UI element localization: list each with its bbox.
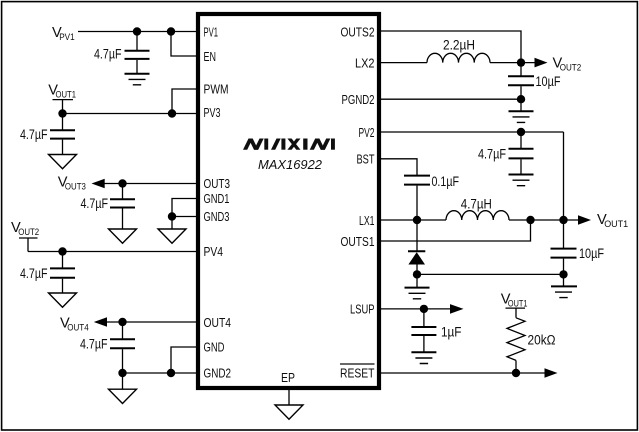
capacitor C1 4.7uF plates: [125, 51, 150, 59]
junction dot VPV1 at EN branch: [167, 27, 175, 35]
ground triangle T6 EP: [275, 405, 303, 419]
ground G1 earth: [125, 73, 150, 75]
svg-text:4.7µH: 4.7µH: [461, 197, 492, 212]
wire LX1 to inductor: [381, 219, 446, 221]
svg-text:EP: EP: [281, 370, 295, 385]
diode D1 cathode bar: [408, 250, 425, 252]
svg-text:PGND2: PGND2: [342, 92, 375, 107]
arrow VOUT4 left: [94, 317, 107, 327]
resistor R1 lead bottom: [515, 360, 517, 373]
svg-text:PWM: PWM: [204, 81, 229, 96]
wire EN branch: [171, 32, 196, 57]
svg-text:4.7µF: 4.7µF: [20, 127, 48, 142]
wire BST: [381, 159, 417, 176]
ground triangle T2: [109, 229, 137, 243]
capacitor 10uF output1 plates: [551, 249, 577, 258]
wire to ground below C5: [122, 373, 124, 389]
svg-text:OUTS1: OUTS1: [341, 234, 375, 249]
wire GND1 GND3 tie: [172, 199, 196, 217]
capacitor 1uF lead bottom: [423, 336, 425, 352]
arrow VOUT1 right: [578, 215, 591, 225]
junction dot 10uF bottom: [559, 270, 567, 278]
svg-text:OUT1: OUT1: [604, 219, 628, 230]
junction dot PV2 at cap: [517, 128, 525, 136]
svg-text:RESET: RESET: [340, 366, 375, 381]
svg-text:4.7µF: 4.7µF: [20, 266, 48, 281]
svg-text:PV1: PV1: [59, 32, 74, 43]
arrow LSUP right: [450, 304, 464, 314]
capacitor C3 lead top: [122, 184, 124, 200]
wire LX2 to inductor: [381, 62, 427, 64]
svg-text:0.1µF: 0.1µF: [432, 174, 460, 189]
junction dot diode anode: [413, 270, 421, 278]
junction dot PGND2 node: [517, 95, 525, 103]
svg-text:OUT4: OUT4: [67, 322, 89, 333]
wire RESET: [381, 372, 545, 374]
svg-text:OUT1: OUT1: [508, 298, 528, 309]
wire 0.1uF to LX1: [416, 186, 418, 220]
svg-text:1µF: 1µF: [441, 325, 462, 340]
junction dot PV3 at PWM branch: [168, 109, 176, 117]
wire PWM branch: [172, 89, 196, 114]
diode D1 lead top: [416, 220, 418, 251]
wire PV2: [381, 131, 564, 133]
junction dot PV4 at C4: [58, 247, 66, 255]
ground triangle T4: [49, 293, 77, 307]
svg-text:4.7µF: 4.7µF: [81, 196, 109, 211]
ground G6 earth: [411, 351, 436, 353]
diode D1 triangle: [408, 252, 425, 264]
ground G4 earth: [416, 274, 418, 287]
capacitor C3 4.7uF plates: [110, 199, 135, 207]
wire OUTS2: [381, 31, 521, 63]
svg-text:OUT2: OUT2: [18, 227, 39, 238]
wire inductor L2 to VOUT2 arrow: [490, 62, 535, 64]
capacitor C2 4.7uF plates: [50, 130, 75, 138]
junction dot GND3: [168, 212, 176, 220]
capacitor C5 lead bottom: [122, 349, 124, 373]
capacitor 10uF output2 lead top: [520, 63, 522, 76]
junction dot VPV1 at C1: [133, 27, 141, 35]
capacitor 4.7uF PV2 plates: [509, 149, 534, 159]
inductor L2 2.2uH: [427, 53, 490, 62]
capacitor C1 lead bottom: [136, 60, 138, 74]
svg-text:OUT3: OUT3: [65, 181, 86, 192]
capacitor 0.1uF plates: [404, 176, 430, 185]
svg-text:20kΩ: 20kΩ: [528, 332, 556, 347]
capacitor 10uF output1 lead top: [563, 220, 565, 248]
wire GND2: [123, 372, 197, 374]
wire EP lead: [288, 390, 290, 405]
svg-text:LX1: LX1: [359, 213, 375, 228]
wire LSUP: [381, 308, 450, 310]
ground triangle T5: [109, 389, 137, 403]
svg-text:LX2: LX2: [355, 55, 375, 70]
junction dot OUT3 at C3: [118, 179, 126, 187]
capacitor 10uF output2 plates: [508, 76, 534, 85]
svg-text:4.7µF: 4.7µF: [94, 46, 122, 61]
svg-text:4.7µF: 4.7µF: [478, 146, 506, 161]
junction dot LX1 at PV2 vertical: [559, 216, 567, 224]
svg-text:OUT1: OUT1: [56, 89, 77, 100]
svg-text:PV4: PV4: [204, 244, 224, 259]
junction dot LX2 output node: [517, 58, 525, 66]
ground triangle T1: [49, 155, 77, 169]
svg-text:GND3: GND3: [204, 209, 230, 224]
capacitor C4 4.7uF plates: [50, 268, 75, 277]
resistor R1 20k zigzag: [507, 318, 525, 361]
junction dot VOUT1 at C2: [58, 109, 66, 117]
wire VOUT2 to PV4: [28, 251, 196, 253]
node VOUT1 label bar and stub above resistor: [506, 308, 526, 318]
svg-text:OUT4: OUT4: [204, 315, 232, 330]
svg-text:GND2: GND2: [204, 366, 232, 381]
capacitor C5 4.7uF plates: [110, 339, 135, 348]
junction dot RESET at R1: [512, 369, 520, 377]
IC U1 MAX16922 box: [198, 14, 379, 388]
arrow VOUT3 left: [92, 179, 105, 189]
node VOUT1 label bar and stub: [53, 100, 74, 114]
capacitor C3 lead bottom: [122, 209, 124, 230]
arrow VOUT2 right: [535, 58, 548, 68]
ground triangle T3: [158, 229, 186, 243]
svg-text:10µF: 10µF: [536, 74, 561, 89]
ground G3 earth: [509, 174, 534, 176]
node VOUT2 label bar and stub: [19, 238, 38, 252]
svg-text:GND1: GND1: [204, 191, 230, 206]
wire OUTS1: [381, 220, 531, 241]
capacitor 4.7uF PV2 lead bottom: [520, 159, 522, 174]
svg-text:LSUP: LSUP: [350, 302, 375, 317]
svg-text:OUT3: OUT3: [204, 176, 231, 191]
capacitor 10uF output2 lead bottom: [520, 86, 522, 99]
diode D1 lead bottom: [416, 265, 418, 275]
capacitor C5 lead top: [122, 322, 124, 339]
wire PGND2: [381, 98, 521, 100]
ground G2 earth: [520, 99, 522, 111]
svg-text:PV2: PV2: [359, 125, 375, 140]
inductor L1 4.7uH: [446, 211, 509, 220]
svg-text:BST: BST: [357, 152, 375, 167]
svg-text:PV1: PV1: [204, 24, 219, 39]
svg-text:OUTS2: OUTS2: [341, 24, 375, 39]
svg-text:MAX16922: MAX16922: [258, 157, 323, 172]
capacitor C4 lead top: [62, 252, 64, 269]
junction dot LX1 at BST branch: [413, 216, 421, 224]
wire VPV1 to PV1: [78, 31, 196, 33]
svg-text:2.2µH: 2.2µH: [443, 37, 475, 52]
capacitor 10uF output1 lead bottom: [563, 259, 565, 275]
wire GND branch: [171, 347, 196, 373]
arrow RESET right: [545, 368, 558, 378]
capacitor C2 lead bottom: [62, 140, 64, 155]
junction dot OUT4 at C5: [118, 318, 126, 326]
junction dot C5 bottom at GND2: [118, 369, 126, 377]
MAXIM logo: [243, 139, 335, 150]
svg-text:EN: EN: [204, 49, 217, 64]
wire GND3 to ground: [171, 217, 173, 230]
capacitor 1uF plates: [411, 327, 436, 335]
wire inductor L1 to VOUT1 arrow: [509, 219, 579, 221]
junction dot LX1 at OUTS1 branch: [526, 216, 534, 224]
wire VOUT1 to PV3: [63, 113, 197, 115]
junction dot GND2 at GND branch: [167, 369, 175, 377]
capacitor C2 lead top: [62, 114, 64, 131]
svg-text:10µF: 10µF: [579, 246, 604, 261]
capacitor 4.7uF PV2 lead top: [520, 132, 522, 149]
svg-text:4.7µF: 4.7µF: [80, 337, 108, 352]
svg-text:GND: GND: [204, 340, 225, 355]
capacitor 1uF lead top: [423, 309, 425, 327]
wire OUT4: [106, 321, 196, 323]
svg-text:PV3: PV3: [204, 105, 221, 120]
wire diode anode to cap bottom: [417, 273, 564, 275]
wire PV2 down to VOUT1 node: [563, 132, 565, 220]
ground G5 earth: [563, 274, 565, 286]
capacitor C4 lead bottom: [62, 279, 64, 293]
wire OUT3: [104, 183, 196, 185]
capacitor C1 lead top: [136, 32, 138, 51]
svg-text:OUT2: OUT2: [560, 63, 582, 74]
junction dot LSUP at 1uF: [420, 305, 428, 313]
